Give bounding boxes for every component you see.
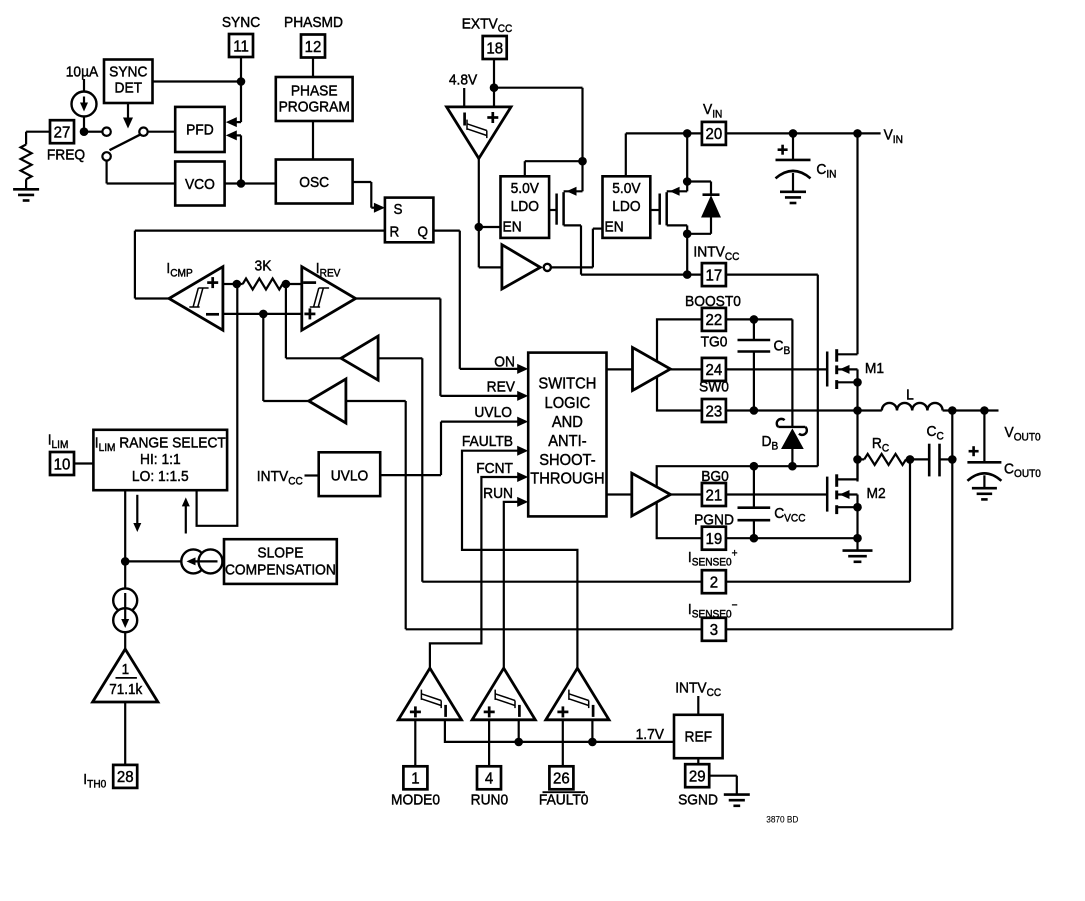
svg-text:L: L [906, 387, 914, 404]
pin 12 PHASMD [301, 35, 325, 58]
node: RC-CC junction dot [906, 455, 915, 464]
svg-text:REV: REV [487, 379, 516, 396]
capacitor CC (series) [910, 458, 929, 460]
svg-text:SGND: SGND [678, 792, 718, 809]
svg-text:1: 1 [411, 770, 419, 788]
node: switch node dot [853, 406, 862, 415]
arrow: SYNC DET down toward switch [127, 103, 129, 119]
wire: RUN0 comparator inputs [488, 720, 490, 767]
switch contact b (open circle) [139, 128, 147, 136]
driver G1 (top gate driver) [633, 348, 671, 391]
wire: ISENSE0+ left segment to buffer A1 [422, 581, 702, 583]
node: dot on EXTVCC vertical at LDO1 tap [578, 157, 587, 166]
svg-text:17: 17 [706, 267, 723, 285]
svg-text:FCNT: FCNT [476, 461, 513, 478]
wire: ICMP - input line to IREV + input [223, 313, 302, 315]
capacitor CVCC [753, 466, 755, 508]
node: CVCC top dot [750, 462, 759, 471]
block REF [674, 715, 723, 758]
svg-text:LDO: LDO [612, 199, 640, 216]
wire: RUN input from RUN0 comparator [504, 502, 518, 668]
block PFD [175, 107, 224, 152]
node: minus-line junction dot [259, 310, 268, 319]
svg-text:22: 22 [706, 312, 723, 330]
capacitor COUT0 (polarized to ground) [983, 411, 985, 463]
svg-text:PHASMD: PHASMD [284, 15, 343, 32]
pin 10 ILIM [50, 452, 74, 475]
node: INTVCC rail dot [683, 270, 692, 279]
wire: pin 17 right and down to low-side rail [726, 274, 818, 276]
node: CB bottom dot [750, 406, 759, 415]
pin 1 MODE0 [403, 766, 427, 789]
svg-text:71.1k: 71.1k [109, 681, 143, 698]
block SLOPE COMPENSATION [224, 539, 337, 584]
wire: logic to top driver [607, 368, 633, 370]
wire: R input from ICMP output [135, 230, 385, 232]
node: DB anode dot on INTVCC rail [788, 462, 797, 471]
svg-text:LO: 1:1.5: LO: 1:1.5 [132, 468, 189, 485]
svg-text:VCO: VCO [185, 177, 215, 194]
svg-text:21: 21 [706, 487, 723, 505]
driver G2 (bottom gate driver) [632, 473, 671, 516]
node: VOUT node dots [948, 406, 957, 415]
node: VIN tap dot [683, 129, 692, 138]
svg-text:SWITCH: SWITCH [538, 375, 596, 393]
ground (SGND) [724, 793, 750, 796]
wire: SW0 line to switch node [726, 409, 882, 411]
wire: ISENSE0- left segment to buffer A2 [406, 628, 702, 630]
wire: BOOST0/SW0 driver supply bracket [657, 319, 702, 410]
wire: gain block to pin 28 [124, 702, 126, 765]
latch U_SR (S R Q) [385, 198, 434, 243]
svg-text:R: R [390, 224, 400, 241]
wire: REF to pin 29 [697, 758, 699, 764]
transistor P1 (PMOS pass, EXTVCC to INTVCC) [549, 209, 557, 211]
svg-text:FREQ: FREQ [47, 147, 85, 164]
wire: switch c down to VCO input [105, 161, 107, 184]
node: M1 source dot [853, 378, 862, 387]
svg-text:PHASE: PHASE [291, 83, 338, 100]
buffer A2 (sense buffer, points left) [262, 314, 264, 401]
wire: FREQ pin to external resistor [26, 131, 50, 133]
block SYNC DET [104, 60, 153, 104]
wire: INTVCC/PGND driver supply bracket [657, 466, 818, 538]
arrow into PFD upper input [236, 121, 241, 123]
svg-text:PROGRAM: PROGRAM [279, 99, 350, 116]
wire: VIN line to the right [726, 132, 881, 134]
block LDO2 5.0V LDO (VIN) [603, 176, 651, 238]
svg-text:SHOOT-: SHOOT- [539, 452, 595, 470]
svg-text:11: 11 [233, 38, 249, 56]
wire: EXTVCC branch right and down to PMOS switch [494, 87, 583, 89]
svg-text:EN: EN [503, 219, 522, 236]
capacitor CIN (polarized to ground) [792, 133, 794, 160]
wire: INTVCC to REF [697, 696, 699, 715]
wire: inverter output up to LDO2 EN [551, 266, 593, 268]
node: CB top dot [750, 315, 759, 324]
svg-text:ON: ON [494, 354, 515, 371]
pin 3 ISENSE0- [702, 618, 726, 641]
svg-text:REF: REF [685, 729, 713, 746]
wire: pin 10 to range select [74, 462, 93, 464]
wire: IREV output to REV input [356, 297, 441, 299]
block ILIM RANGE SELECT [93, 430, 227, 490]
pin 20 VIN [702, 122, 726, 145]
wire: mirror node to slope comp mirror [125, 560, 183, 562]
svg-text:SYNC: SYNC [109, 64, 147, 81]
svg-text:26: 26 [553, 770, 570, 788]
pin 24 TG0 [702, 358, 726, 381]
resistor RC [864, 454, 906, 465]
svg-text:M1: M1 [865, 361, 884, 378]
svg-text:TG0: TG0 [701, 334, 728, 351]
wire: pin 29 to ground [709, 775, 737, 777]
wire: comparator output down, to LDO1 EN and inverter [478, 159, 480, 268]
node: 3K right dot [282, 280, 291, 289]
comparator U_MODE (MODE0, points up) [398, 668, 461, 720]
svg-text:COMPENSATION: COMPENSATION [225, 562, 336, 579]
wire: ISENSE0- right segment [726, 628, 952, 630]
svg-text:5.0V: 5.0V [612, 181, 641, 198]
svg-text:3: 3 [710, 622, 718, 640]
wire: range select bottom to mirror node [124, 490, 126, 561]
block LDO1 5.0V LDO (EXTVCC) [501, 176, 550, 238]
svg-text:OSC: OSC [299, 175, 329, 192]
wire: BOOST0 to CB and DB cathode [726, 318, 793, 320]
pin 18 EXTVCC [483, 36, 507, 59]
wire: UVLO output up to switch logic UVLO input [380, 474, 441, 476]
pin 23 SW0 [702, 399, 726, 422]
node: 3K left dot [233, 280, 242, 289]
amplifier 1/71.1k (gain block) [93, 649, 158, 702]
pin 26 FAULT0 [549, 766, 573, 789]
wire: ICMP output to R latch vertical [135, 297, 169, 299]
pin 19 PGND [702, 527, 726, 550]
ground (CIN) [780, 191, 806, 194]
pin 27 FREQ [50, 120, 74, 143]
node: CVCC bottom dot [750, 534, 759, 543]
node: 1.7V line dot (FAULT0) [588, 738, 597, 747]
svg-text:FAULTB: FAULTB [462, 434, 513, 451]
block PHASE PROGRAM [276, 77, 353, 121]
svg-text:MODE0: MODE0 [391, 792, 440, 809]
svg-text:10: 10 [54, 456, 71, 474]
pin 29 SGND [685, 764, 709, 787]
wire: pin 18 down to comparator + input [493, 59, 495, 107]
wire: VOUT down to CC node and ISENSE0- line [951, 411, 953, 630]
svg-text:LDO: LDO [511, 199, 539, 216]
wire: PHASE PROGRAM to OSC [312, 121, 314, 160]
svg-text:SYNC: SYNC [222, 15, 260, 32]
wire: mirror to slope comp block [221, 560, 224, 562]
pin 4 RUN0 [477, 766, 501, 789]
svg-text:DET: DET [115, 80, 143, 97]
svg-text:19: 19 [706, 531, 723, 549]
arrow: range select down indicator [136, 495, 138, 524]
svg-text:HI: 1:1: HI: 1:1 [140, 452, 181, 469]
svg-text:M2: M2 [867, 486, 886, 503]
wire: RC-CC junction down to ISENSE0+ line [909, 459, 911, 581]
svg-text:3K: 3K [255, 258, 272, 275]
svg-text:RUN0: RUN0 [471, 792, 509, 809]
svg-text:UVLO: UVLO [331, 468, 369, 485]
svg-text:THROUGH: THROUGH [530, 470, 604, 488]
wire: MODE0 comparator inputs [414, 720, 416, 767]
wire: FREQ junction to switch pole [88, 131, 102, 133]
svg-text:EN: EN [605, 219, 624, 236]
node: M2 source dot [853, 503, 862, 512]
wire: range select feedback loop to 3K node [197, 284, 238, 526]
wire: M1 source to switch node [856, 382, 858, 410]
wire: M2 source to PGND rail [856, 507, 858, 538]
svg-text:3870 BD: 3870 BD [766, 814, 798, 824]
comparator U_RUN (RUN0, points up) [472, 668, 535, 720]
node: 1.7V line dot (RUN0) [514, 738, 523, 747]
comparator U_FAULT (FAULT0, points up) [546, 668, 609, 720]
node: CC right dot [948, 455, 957, 464]
svg-text:28: 28 [117, 769, 134, 787]
arrow: range select up indicator [182, 497, 190, 506]
svg-text:ANTI-: ANTI- [548, 432, 586, 450]
node: SYNC DET junction dot [237, 77, 246, 86]
svg-text:Q: Q [418, 224, 428, 241]
svg-text:5.0V: 5.0V [511, 181, 540, 198]
comparator IREV (points right) [302, 267, 356, 331]
node: VCO output junction dot [237, 179, 246, 188]
wire: driver G2 output to BG0 pin [671, 493, 702, 495]
node: M2 ground dot [853, 534, 862, 543]
wire: LDO2 input from VIN line [625, 133, 627, 176]
ground (M2 source) [856, 538, 858, 550]
wire: DB cathode vertical [791, 319, 793, 427]
wire: VIN vertical down to PMOS2/diode [686, 133, 688, 191]
pin 22 BOOST0 [702, 308, 726, 331]
wire: VCO output to OSC with branch up to PFD lower input [225, 182, 276, 184]
wire: switch b to PFD input [148, 131, 176, 133]
svg-text:23: 23 [706, 403, 723, 421]
switch blade [110, 135, 141, 151]
capacitor CB [753, 319, 755, 340]
wire: INTVCC stub to UVLO block [305, 474, 319, 476]
wire: SYNC DET output to SYNC line [153, 80, 242, 82]
wire: PGND rail right [726, 537, 858, 539]
wire: 4.8V reference into comparator left input [463, 88, 465, 107]
pin 2 ISENSE0+ [702, 570, 726, 593]
wire: FAULTB input from FAULT0 comparator [462, 451, 577, 669]
buffer A1 (sense buffer, points left) [285, 284, 287, 358]
transistor P2 (PMOS pass, VIN LDO to INTVCC) [650, 209, 659, 211]
svg-text:SLOPE: SLOPE [257, 545, 303, 562]
wire: buffer A1 input from ISENSE0+ vertical [378, 357, 422, 359]
node: M1 drain tap dot [853, 129, 862, 138]
svg-text:29: 29 [689, 768, 706, 786]
wire: logic to bottom driver [607, 493, 632, 495]
svg-text:24: 24 [706, 362, 723, 380]
node: mirror node dot [121, 557, 130, 566]
resistor 3K [243, 279, 283, 290]
wire: down to INTVCC rail [686, 234, 688, 275]
wire: pin 11 down [240, 57, 242, 122]
wire: switch node down to RC and M2 drain [856, 411, 858, 482]
node: PMOS2 top junction dot [683, 177, 692, 186]
switch contact c (open circle) [102, 152, 110, 160]
ground (COUT0) [972, 487, 997, 490]
svg-text:20: 20 [706, 126, 723, 144]
transistor M2 (bottom NMOS) [724, 493, 827, 495]
current source I_FREQ 10uA (circle with down arrow) [83, 79, 85, 92]
resistor R_FREQ (vertical, on FREQ pin) [25, 132, 27, 145]
comparator U_EXTVCC 4.8V (points down) [447, 107, 511, 159]
svg-text:FAULT0: FAULT0 [539, 792, 589, 809]
pin 17 INTVCC [702, 263, 726, 286]
node: FREQ junction dot [80, 127, 89, 136]
wire: Q output to ON input [433, 230, 459, 232]
inverter U_INV (EN logic) [502, 245, 540, 289]
svg-text:4: 4 [485, 770, 494, 788]
svg-text:PFD: PFD [186, 122, 214, 139]
svg-text:1: 1 [122, 661, 130, 678]
svg-text:1.7V: 1.7V [636, 726, 665, 743]
pin 28 ITH0 [113, 765, 137, 788]
wire: driver G1 output to TG0 pin [670, 368, 702, 370]
transistor M1 (top NMOS) [826, 352, 829, 387]
svg-text:AND: AND [552, 413, 583, 431]
block VCO [175, 162, 224, 206]
svg-text:18: 18 [486, 40, 503, 58]
pin 21 BG0 [702, 483, 726, 506]
diode DB (schottky, bootstrap) [778, 426, 805, 428]
wire: REV input from IREV [440, 395, 518, 397]
pin 11 SYNC [229, 34, 253, 57]
node: EXTVCC junction dot [490, 83, 499, 92]
wire: ICMP + input to 3K node [223, 283, 237, 285]
wire: FCNT input from MODE0 comparator [430, 477, 518, 668]
svg-text:S: S [394, 201, 403, 218]
current mirror (vertical pair, to gain block) [124, 561, 126, 590]
svg-text:12: 12 [305, 38, 322, 56]
svg-text:4.8V: 4.8V [449, 72, 478, 89]
block SWITCH LOGIC AND ANTI-SHOOT-THROUGH [528, 353, 606, 517]
comparator ICMP (points left) [169, 267, 223, 331]
node: RC tap dot [853, 455, 862, 464]
diode D1 (across PMOS2) [687, 180, 711, 182]
switch contact a (open circle) [102, 128, 110, 136]
svg-text:UVLO: UVLO [474, 405, 512, 422]
wire: OSC output to S input of latch [353, 181, 372, 183]
wire: LDO1 input from EXTVCC line [524, 161, 526, 176]
block OSC [276, 160, 353, 204]
wire: EXTVCC vertical to PMOS1 top terminal [581, 161, 583, 191]
inductor L [882, 403, 943, 411]
wire: FAULT0 comparator inputs [562, 720, 564, 767]
block UVLO [319, 452, 381, 496]
wire: ON input from latch Q [460, 368, 518, 370]
wire: 3K right to IREV - input [286, 283, 302, 285]
wire: buffer A2 input from ISENSE0- vertical [346, 400, 406, 402]
svg-text:10µA: 10µA [66, 64, 99, 81]
svg-text:LOGIC: LOGIC [545, 394, 591, 412]
svg-text:27: 27 [54, 124, 71, 142]
svg-text:2: 2 [710, 574, 718, 592]
wire: pin 12 to PHASE PROGRAM [312, 58, 314, 78]
ground (below R_FREQ) [13, 188, 39, 191]
wire: INTVCC rail to pin 17 [581, 274, 702, 276]
current mirror (slope compensation, horizontal pair) [181, 549, 205, 573]
svg-text:RUN: RUN [483, 486, 513, 503]
node: CIN tap dot [789, 129, 798, 138]
wire: TG0 to M1 gate [726, 368, 827, 370]
svg-text:SW0: SW0 [699, 379, 729, 396]
node: PMOS2 bottom junction dot [683, 230, 692, 239]
